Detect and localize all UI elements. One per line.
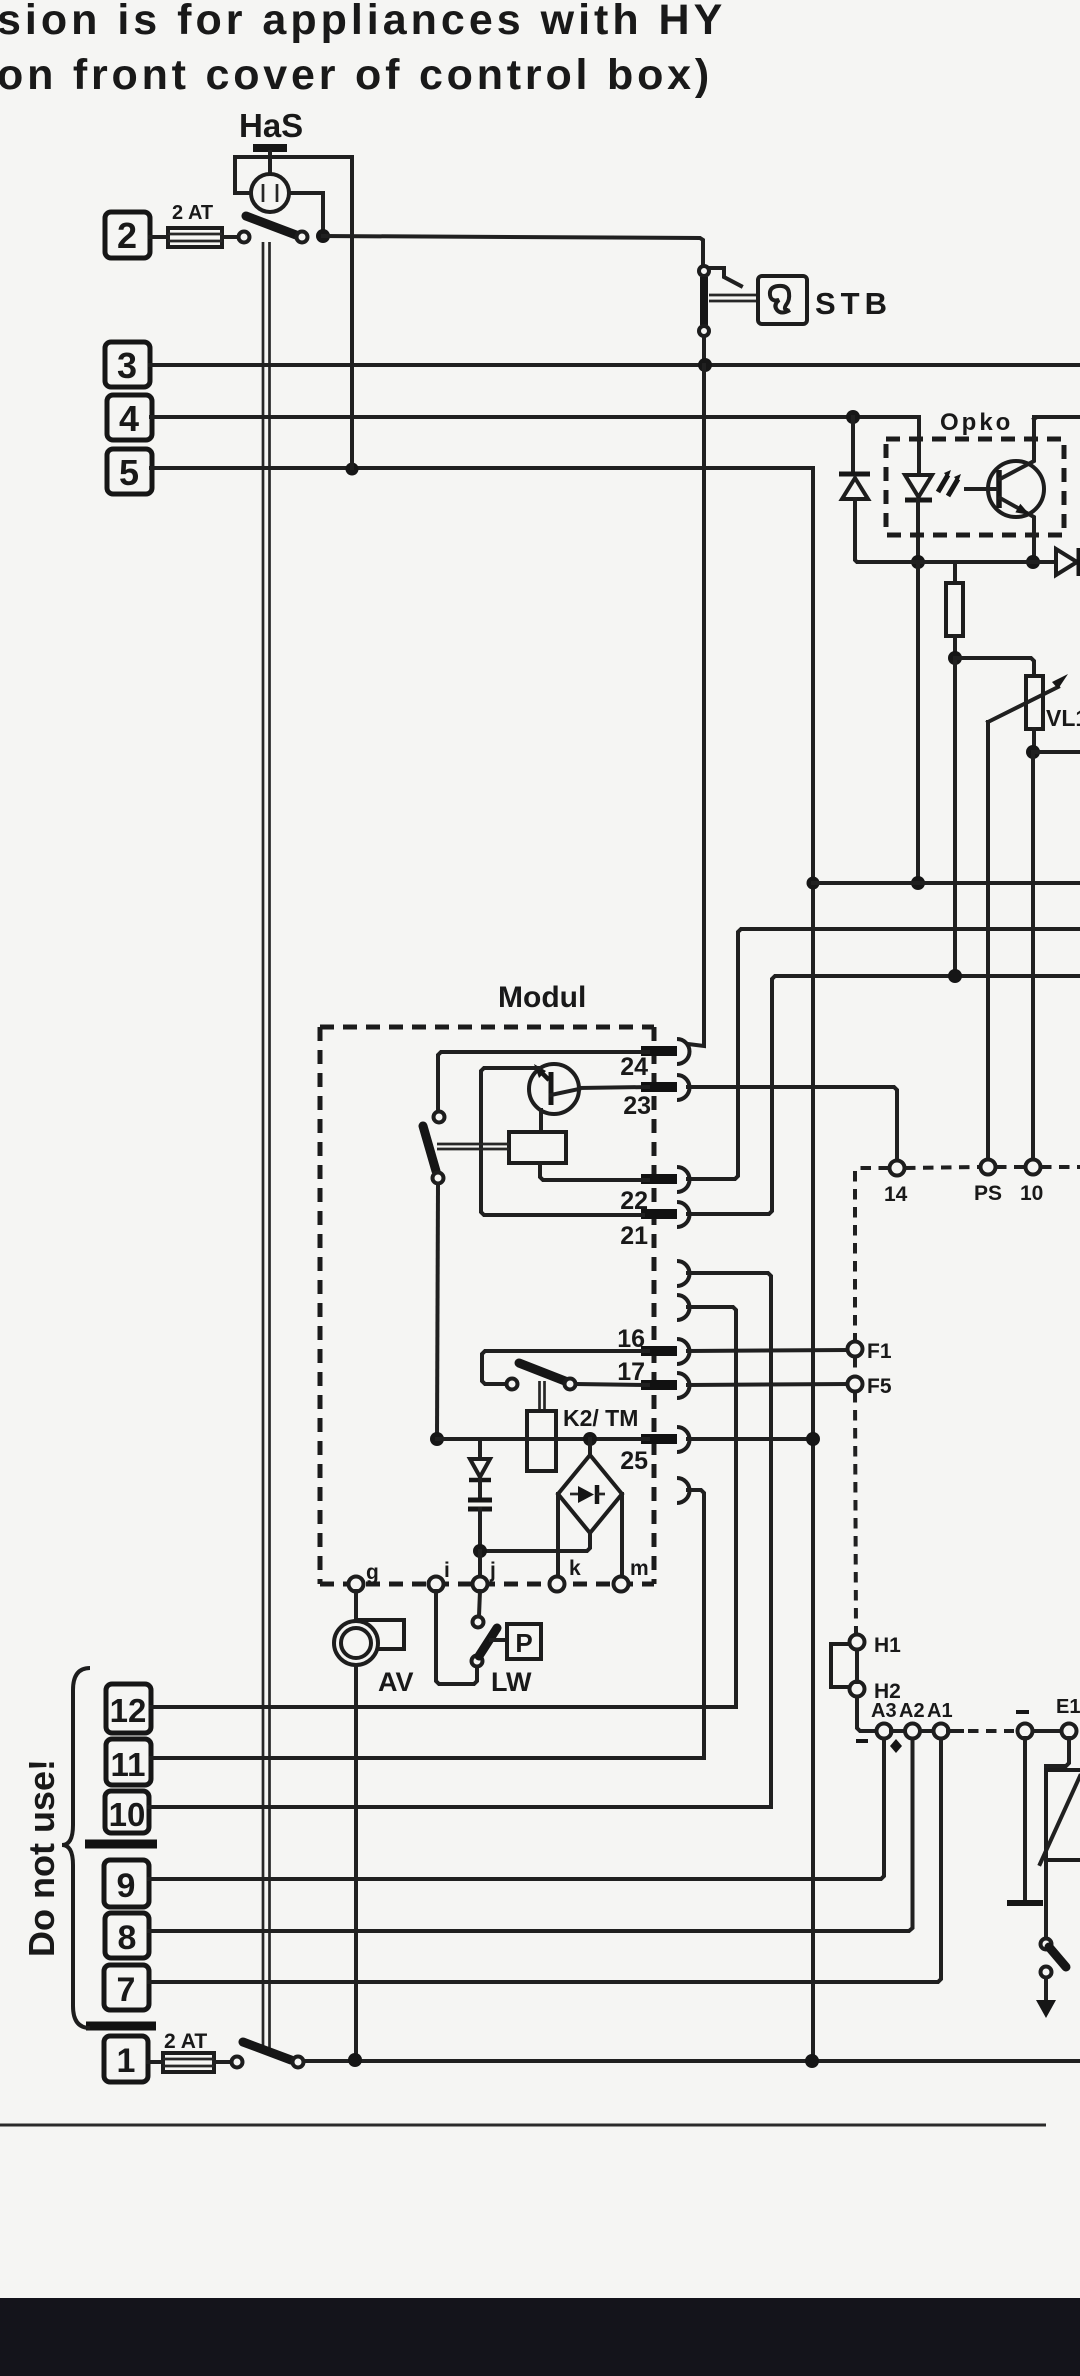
- switch S4 blade: [1049, 1947, 1066, 1967]
- wire terminal2 to fuse: [150, 235, 168, 239]
- wire dashed PS to 10: [996, 1165, 1025, 1169]
- svg-text:sion is for appliances with HY: sion is for appliances with HY: [0, 0, 726, 44]
- svg-text:P: P: [515, 1628, 532, 1658]
- transistor Q2: [529, 1064, 579, 1114]
- node F5: [848, 1377, 863, 1392]
- svg-text:2: 2: [117, 215, 137, 256]
- switch HaS pole1 left contact: [239, 232, 250, 243]
- wire HaS output to STB riser: [323, 236, 703, 266]
- node A1: [934, 1724, 949, 1739]
- optocoupler Opko dashed box: [886, 439, 1064, 535]
- thermostat STB sensor box: [758, 276, 807, 324]
- switch STB lower contact: [699, 326, 709, 336]
- wire terminal i bracket to LW switch: [436, 1591, 477, 1684]
- node junction wire5->down riser: [807, 877, 820, 890]
- wire R1 bottom to VL1 top: [955, 658, 1034, 676]
- svg-text:7: 7: [117, 1971, 136, 2009]
- wire 976 row with riser to pin21: [688, 976, 1080, 1214]
- svg-text:H1: H1: [874, 1634, 901, 1657]
- svg-text:1: 1: [117, 2042, 136, 2080]
- svg-text:24: 24: [620, 1053, 648, 1081]
- wire STB linkage (double): [709, 295, 757, 301]
- wire B1 right leg to m: [620, 1494, 624, 1577]
- switch LW blade: [479, 1628, 497, 1656]
- svg-text:AV: AV: [378, 1667, 414, 1697]
- diode D3 with capacitor C1 branch: [468, 1439, 492, 1548]
- terminal i: [429, 1577, 444, 1592]
- ground chassis arrow: [1036, 1978, 1056, 2018]
- svg-text:23: 23: [623, 1092, 651, 1120]
- node junction fan / wire2061: [348, 2053, 362, 2067]
- wire pin17 to F5: [688, 1384, 847, 1385]
- brace do-not-use: [62, 1668, 90, 2028]
- svg-text:m: m: [630, 1557, 649, 1580]
- svg-text:VL1: VL1: [1046, 705, 1080, 731]
- terminal 8: [105, 1913, 149, 1958]
- svg-text:12: 12: [110, 1692, 147, 1729]
- node junction S2 wire / 1440 row: [430, 1432, 444, 1446]
- switch pole2 right contact: [293, 2057, 304, 2068]
- ui black bottom bar: [0, 2298, 1080, 2376]
- bar electrode plate: [1007, 1900, 1043, 1906]
- wire fuse to contact: [222, 235, 238, 239]
- wire 1440 row to pin25: [437, 1437, 648, 1441]
- svg-text:LW: LW: [491, 1667, 532, 1697]
- node junction wire5 / HaS box: [346, 463, 359, 476]
- node F1: [848, 1342, 863, 1357]
- terminal m: [614, 1577, 629, 1592]
- svg-text:2 AT: 2 AT: [164, 2030, 207, 2053]
- switch S3 right contact: [565, 1379, 576, 1390]
- node 10: [1026, 1160, 1041, 1175]
- wire S3 to pin17: [576, 1384, 648, 1385]
- potentiometer VL1: [988, 674, 1068, 729]
- terminal 7: [104, 1965, 149, 2010]
- wire 752 row to right edge: [1033, 750, 1080, 754]
- lamp HaS indicator: [251, 174, 289, 212]
- wire dashed node14 elbow down to F1: [855, 1168, 889, 1340]
- wire arcB riser down to terminal 12 row: [688, 1307, 736, 1707]
- switch S2 upper contact: [434, 1112, 445, 1123]
- wire arcC riser down to terminal 11 row: [688, 1490, 704, 1758]
- node junction STB / wire3: [698, 358, 712, 372]
- svg-text:g: g: [366, 1561, 379, 1584]
- node H1: [850, 1635, 865, 1650]
- svg-text:10: 10: [109, 1796, 146, 1833]
- separator bar lower: [86, 2022, 156, 2031]
- wire B1 left leg to k: [556, 1494, 560, 1577]
- node junction pin25 / riser 813: [806, 1432, 820, 1446]
- svg-text:A1: A1: [927, 1700, 953, 1722]
- switch STB upper contact: [699, 266, 709, 276]
- svg-text:F5: F5: [867, 1375, 892, 1398]
- wire VL1 bottom riser (to node 10): [1031, 752, 1035, 1160]
- terminal k: [550, 1577, 565, 1592]
- wire collector top to right edge: [1034, 417, 1080, 419]
- wire LED cathode riser down: [916, 562, 920, 881]
- wire HaS actuator stem: [268, 152, 272, 176]
- wire dashed F1 to F5: [853, 1357, 857, 1376]
- light arrows of LED: [938, 470, 961, 496]
- fan AV: [334, 1591, 404, 1665]
- switch S4 bottom contact: [1041, 1967, 1052, 1978]
- wire arcA riser down to terminal 10 row: [688, 1273, 771, 1807]
- switch HaS pole1 right contact: [297, 232, 308, 243]
- wire terminal j to LW top contact: [479, 1591, 480, 1616]
- switch LW top contact: [473, 1617, 484, 1628]
- relay K2/TM coil: [527, 1411, 556, 1471]
- svg-text:i: i: [444, 1559, 450, 1582]
- svg-text:A2: A2: [899, 1700, 925, 1722]
- linkage S3 to K2 (double line): [540, 1381, 545, 1411]
- switch pole2 blade: [243, 2042, 291, 2060]
- wire terminal 7 row to A1: [149, 1739, 941, 1982]
- wire sensor box to switch: [1044, 1860, 1048, 1938]
- wire pin23 to node 14: [688, 1087, 897, 1160]
- wire terminal 3 row: [150, 363, 1080, 367]
- node PS: [981, 1160, 996, 1175]
- svg-text:8: 8: [118, 1919, 137, 1957]
- svg-text:E1: E1: [1056, 1696, 1080, 1718]
- svg-text:k: k: [569, 1557, 581, 1580]
- svg-text:on front cover of control box): on front cover of control box): [0, 51, 713, 99]
- wire A1 dashes to sensor connector: [948, 1729, 962, 1733]
- terminal 3: [105, 342, 150, 387]
- wire fuse to contact: [214, 2060, 231, 2064]
- node A3: [877, 1724, 892, 1739]
- node E1: [1062, 1724, 1077, 1739]
- wire E1 to sensor box: [1046, 1738, 1069, 1770]
- wire LW blade to P box: [491, 1638, 507, 1642]
- wire terminal 4 row: [151, 415, 919, 419]
- svg-text:Modul: Modul: [498, 981, 586, 1014]
- resistor R1: [946, 562, 963, 655]
- svg-text:16: 16: [617, 1325, 645, 1353]
- svg-text:Do not use!: Do not use!: [21, 1759, 62, 1957]
- wire 929 row with riser to pin22: [688, 929, 1080, 1179]
- node junction j riser: [473, 1544, 487, 1558]
- wire j riser: [478, 1551, 482, 1576]
- node junction VL1 bottom: [1026, 745, 1040, 759]
- pin 16: [641, 1339, 690, 1364]
- node junction rectifier top: [583, 1432, 597, 1446]
- wire A3 to A2: [891, 1729, 905, 1733]
- wire dashed node14 to PS: [905, 1167, 980, 1168]
- polarity plus diamond mark: [890, 1739, 902, 1753]
- LED U1 emitter diode: [905, 475, 932, 562]
- wire lamp to pole contact: [289, 193, 323, 234]
- wire pin16 to F1: [688, 1350, 847, 1351]
- node junction LED cathode / D1: [911, 555, 925, 569]
- svg-text:17: 17: [617, 1358, 645, 1386]
- node 14: [890, 1161, 905, 1176]
- switch STB contact bar: [700, 277, 708, 325]
- wire dashed A1 to minus node: [968, 1729, 1014, 1733]
- node junction R1 riser / wire976: [948, 969, 962, 983]
- terminal 12: [106, 1684, 151, 1733]
- pin socket arc B (to terminal 12): [677, 1295, 690, 1320]
- svg-text:STB: STB: [815, 286, 892, 321]
- wire R1 junction riser down: [953, 658, 957, 974]
- terminal 4: [107, 395, 152, 440]
- switch pole2 left contact: [232, 2057, 243, 2068]
- wire net N (double mains line, right conductor): [268, 242, 271, 2050]
- svg-text:11: 11: [111, 1746, 146, 1783]
- switch S2 blade: [423, 1126, 436, 1171]
- svg-text:3: 3: [117, 345, 137, 386]
- wire minus node riser down: [1023, 1738, 1027, 1901]
- wire Q2 emitter to pin23: [579, 1087, 648, 1088]
- switch HaS pole1 blade: [246, 216, 304, 238]
- wire A2 to A1: [920, 1729, 934, 1733]
- node junction R1 bottom: [948, 651, 962, 665]
- wire terminal 12 row: [151, 1705, 736, 1709]
- wire pin24 to switch S2: [438, 1052, 648, 1111]
- terminal 1: [104, 2036, 148, 2082]
- rectifier B1 bridge diamond: [558, 1439, 622, 1533]
- wire H2 down to A3: [857, 1697, 875, 1731]
- transistor Q1 (opto output): [966, 419, 1044, 560]
- wire wire4 corner down to LED: [917, 417, 921, 472]
- terminal 2: [105, 212, 150, 258]
- wire pin24 riser (wire3 down to Modul pin 24): [688, 365, 704, 1046]
- wire terminal 5 row: [151, 468, 813, 2061]
- wire S2 to K2 junction: [437, 1184, 438, 1436]
- svg-text:A3: A3: [871, 1700, 897, 1722]
- wire K1 coil to pin22: [540, 1163, 648, 1180]
- terminal 11: [106, 1739, 151, 1785]
- svg-text:2 AT: 2 AT: [172, 202, 213, 224]
- wire terminal 10 row: [149, 1805, 771, 1809]
- wire terminal1 to fuse: [148, 2060, 163, 2064]
- wire STB contact to wire3: [702, 336, 706, 362]
- wire dashed 10 to right edge: [1041, 1165, 1080, 1169]
- wire VL1 wiper riser (to PS): [986, 722, 990, 1160]
- pin socket arc A (to terminal 10): [677, 1261, 690, 1286]
- svg-text:5: 5: [119, 452, 139, 493]
- terminal 9: [104, 1860, 149, 1907]
- switch S3 left contact: [507, 1379, 518, 1390]
- svg-text:HaS: HaS: [239, 107, 303, 144]
- wire net L (double mains line, left conductor): [262, 242, 265, 2048]
- switch LW bottom contact: [472, 1656, 483, 1667]
- pin socket arc C (to terminal 11): [677, 1478, 690, 1503]
- wire Q2 collector loop to pin21: [481, 1068, 643, 1215]
- wire pin16 to switch S3: [482, 1351, 648, 1384]
- wire B1 bottom to j junction: [480, 1533, 590, 1551]
- diode D2 (right, pointing right): [1056, 548, 1079, 576]
- svg-text:Opko: Opko: [940, 409, 1013, 436]
- pin 22: [641, 1167, 690, 1192]
- svg-text:25: 25: [620, 1447, 648, 1475]
- node junction wire4 / protection diode: [846, 410, 860, 424]
- pin 23: [641, 1075, 690, 1100]
- svg-text:F1: F1: [867, 1340, 892, 1363]
- fuse 2AT (top, terminal 2): [168, 228, 222, 247]
- node junction LED riser / wire883: [911, 876, 925, 890]
- pin 17: [641, 1373, 690, 1398]
- node junction emitter / wire562: [1026, 555, 1040, 569]
- terminal 5: [107, 449, 152, 494]
- terminal g: [349, 1577, 364, 1592]
- wire 562 row: [911, 560, 1056, 564]
- wire pin25 to riser junction: [688, 1437, 813, 1441]
- pin 24: [641, 1039, 690, 1064]
- terminal j: [473, 1577, 488, 1592]
- lamp H1/H2 bracket box: [831, 1644, 849, 1687]
- linkage S2 to K1 (double line): [437, 1144, 509, 1149]
- node sensor minus: [1018, 1724, 1033, 1739]
- wire terminal 4 row right stub: [1034, 415, 1080, 419]
- svg-text:PS: PS: [974, 1182, 1002, 1205]
- wire fan AV down to wire1 row: [354, 1665, 358, 2058]
- sensor E1 box (cut at edge): [1040, 1770, 1080, 1864]
- polarity minus mark below A3: [856, 1739, 868, 1743]
- wire 883 row: [813, 881, 1080, 885]
- wire terminal 9 row to A3: [149, 1739, 884, 1879]
- wire terminal 8 row to A2: [149, 1739, 913, 1931]
- wire HaS frame (box outline to wire5): [235, 157, 352, 468]
- svg-text:9: 9: [117, 1867, 136, 1905]
- switch HaS actuator T-bar: [253, 144, 287, 152]
- switch S3 blade: [519, 1363, 565, 1381]
- svg-text:4: 4: [119, 398, 139, 439]
- wire dashed F5 to H1: [855, 1392, 856, 1633]
- wire H1 to H2: [855, 1650, 859, 1682]
- relay K1 coil: [509, 1132, 566, 1163]
- polarity minus mark above sensor node: [1016, 1710, 1029, 1714]
- page rule line: [0, 2124, 1046, 2127]
- svg-text:K2/ TM: K2/ TM: [563, 1405, 638, 1431]
- switch S4 top contact: [1041, 1939, 1052, 1950]
- svg-text:j: j: [489, 1559, 496, 1582]
- module Modul dashed enclosure: [320, 1027, 654, 1584]
- pressure switch P box: [507, 1624, 541, 1659]
- diode D1 (protection, anode down): [839, 417, 911, 562]
- wire minus node to E1 node: [1033, 1729, 1062, 1733]
- wire terminal 11 row: [151, 1756, 704, 1760]
- svg-text:21: 21: [620, 1222, 648, 1250]
- node A2: [905, 1724, 920, 1739]
- separator bar upper: [85, 1840, 157, 1849]
- terminal 10: [105, 1791, 149, 1833]
- svg-text:14: 14: [884, 1183, 908, 1206]
- svg-text:10: 10: [1020, 1182, 1043, 1205]
- switch STB lever: [711, 268, 741, 286]
- pin 25: [641, 1427, 690, 1452]
- switch S2 lower contact: [433, 1173, 444, 1184]
- pin 21: [641, 1202, 690, 1227]
- wire Q2 base to relay K1: [539, 1110, 543, 1132]
- wire 2061 row: [304, 2059, 1080, 2063]
- node junction HaS output: [316, 229, 330, 243]
- wire VL1 bottom: [1032, 729, 1036, 752]
- node junction riser813 / wire2061: [805, 2054, 819, 2068]
- node H2: [850, 1682, 865, 1697]
- fuse 2AT (bottom, terminal 1): [163, 2053, 214, 2072]
